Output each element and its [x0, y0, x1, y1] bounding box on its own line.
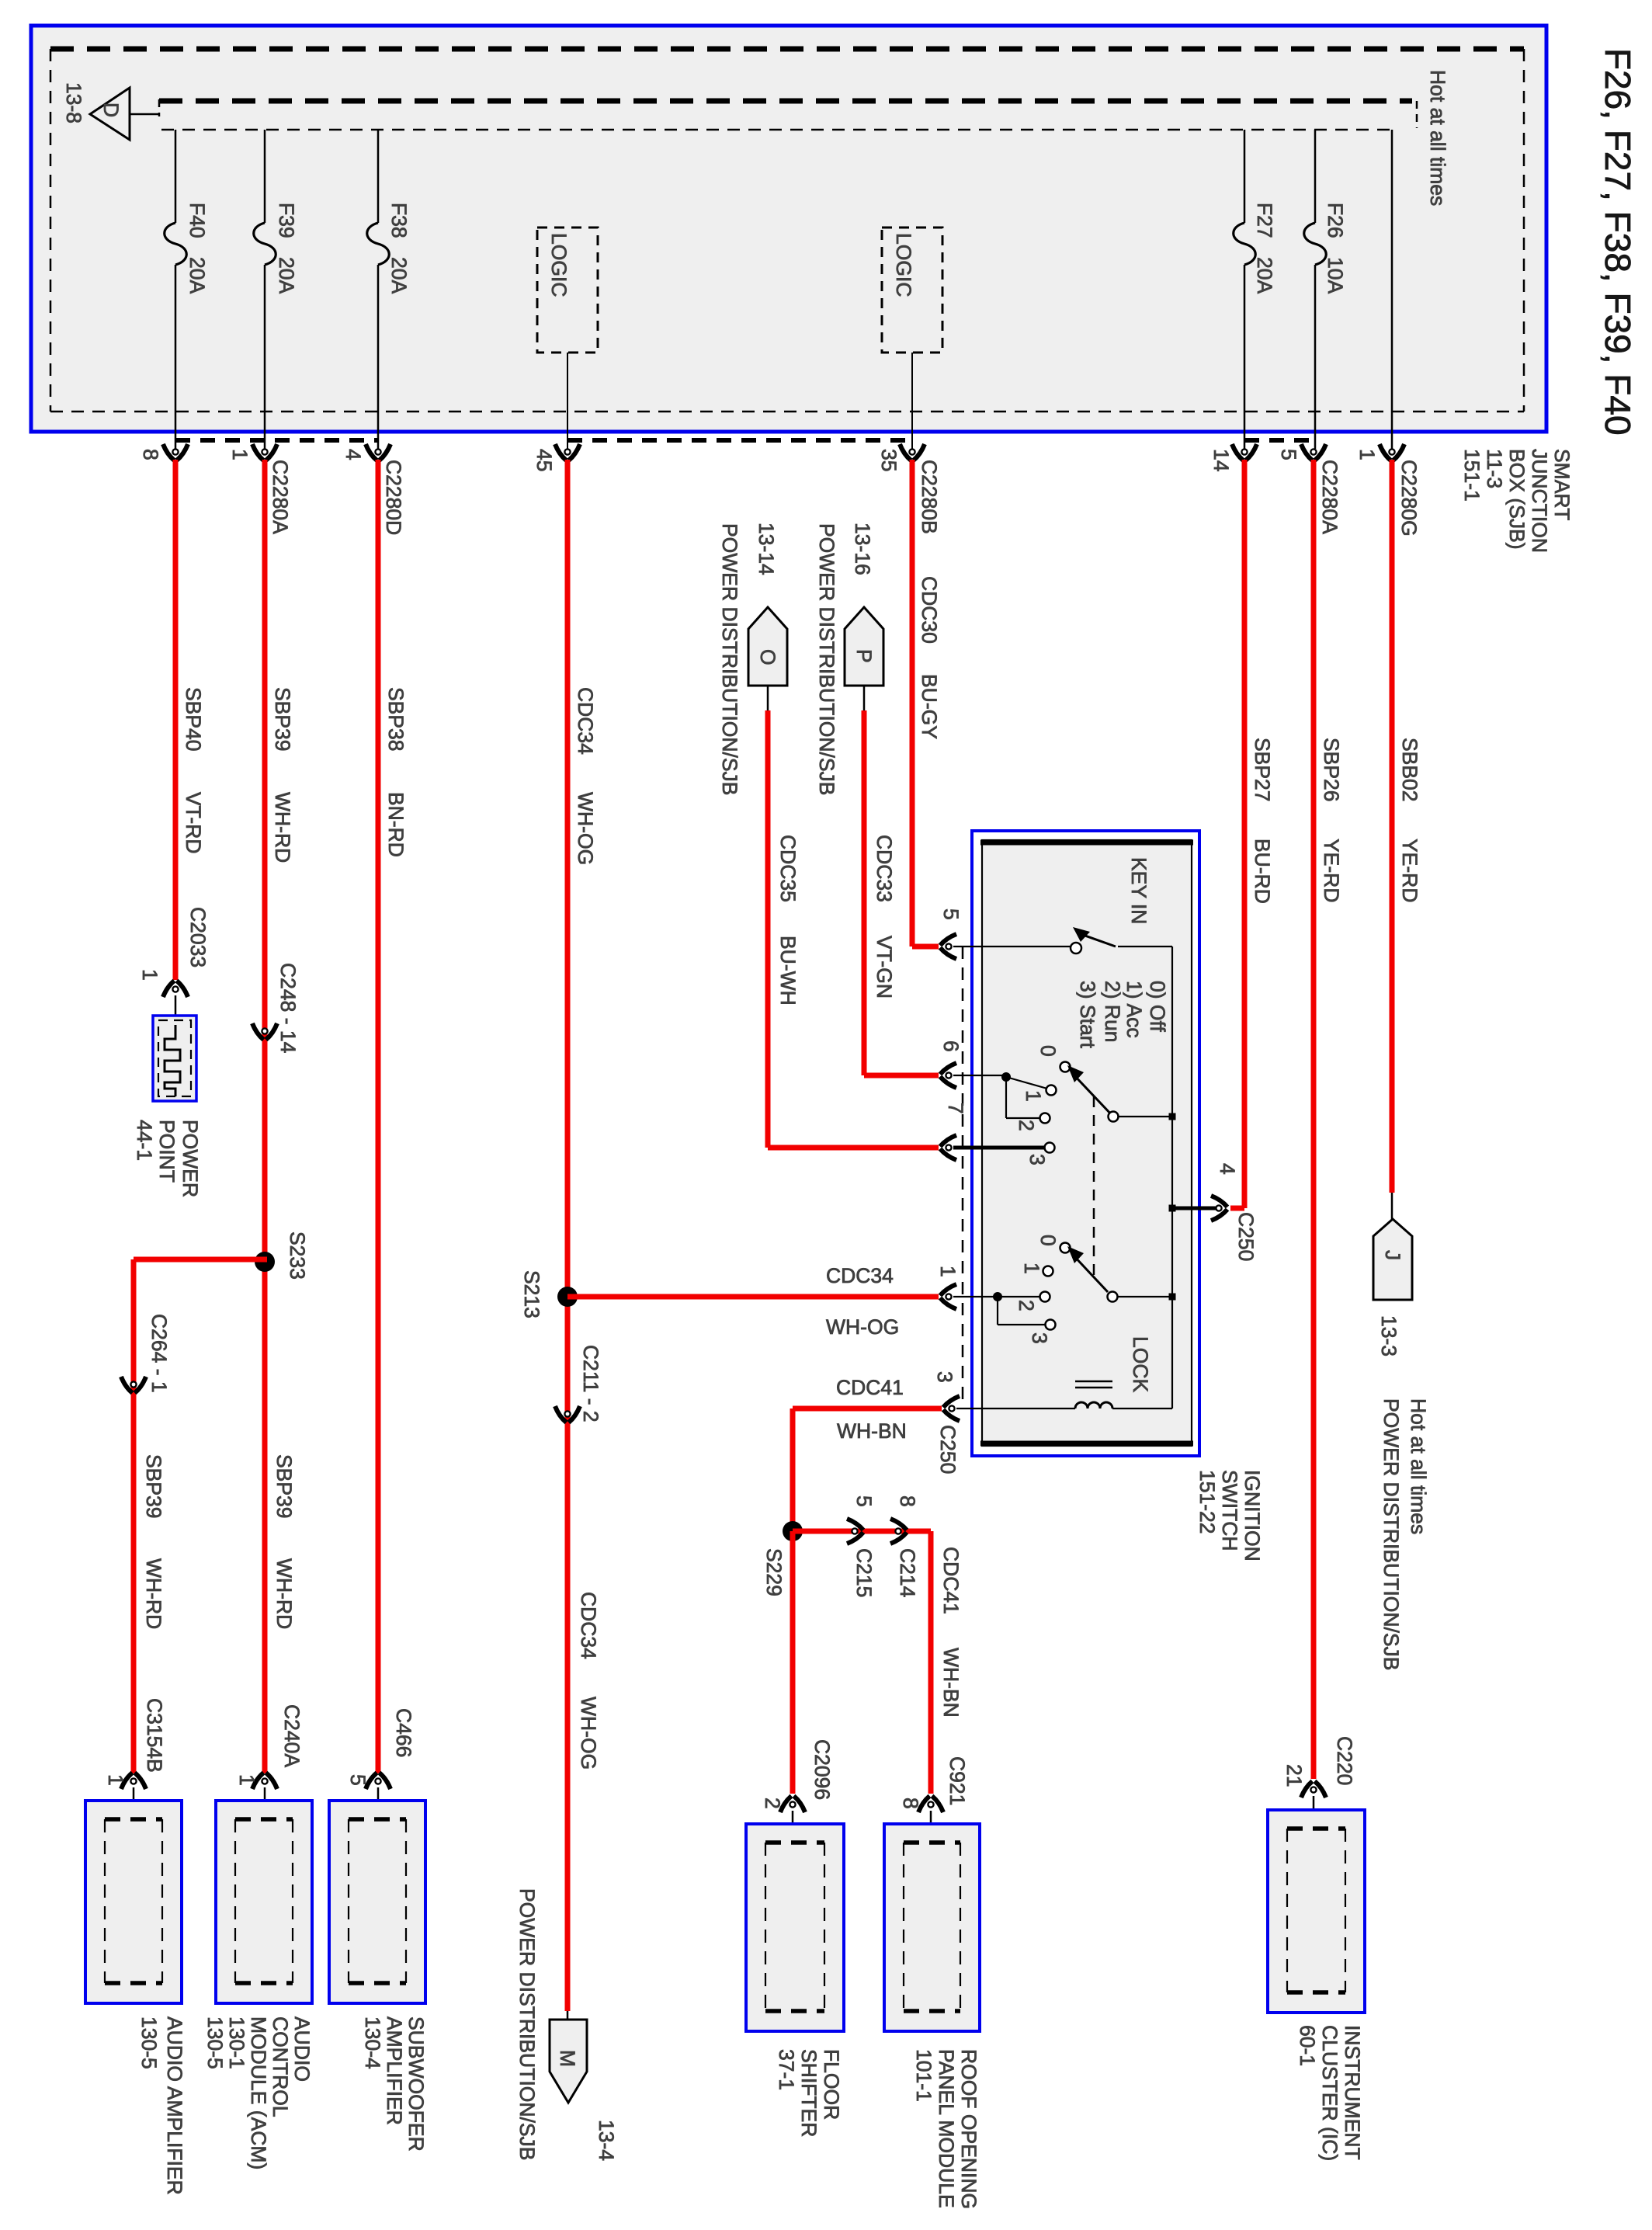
svg-text:C2280A: C2280A: [1318, 460, 1341, 534]
svg-text:1: 1: [228, 449, 252, 460]
svg-text:S233: S233: [286, 1231, 309, 1280]
wire SBB02 YE-RD (red): [1390, 460, 1395, 1193]
svg-text:C2280G: C2280G: [1397, 460, 1421, 537]
svg-text:20A: 20A: [387, 257, 411, 294]
svg-text:13-14: 13-14: [755, 523, 778, 575]
svg-text:SBP39: SBP39: [271, 687, 294, 752]
smart junction box SJB outline: [31, 26, 1546, 432]
connector C264-1 inline arrow: [121, 1377, 146, 1393]
svg-text:C250: C250: [936, 1425, 960, 1474]
SJB outer dashed border bottom: [50, 411, 1524, 413]
svg-text:SBP26: SBP26: [1320, 738, 1343, 802]
SJB outer dashed border left: [50, 49, 52, 412]
connector bus C2280 dashed segment D-E: [567, 438, 912, 443]
svg-text:WH-OG: WH-OG: [577, 1697, 600, 1770]
LOGIC box 1: [537, 228, 598, 353]
ignition pin 6: [940, 1063, 956, 1088]
svg-text:CDC41: CDC41: [939, 1547, 963, 1614]
svg-text:20A: 20A: [1253, 257, 1276, 294]
connector O chevron: [748, 607, 787, 686]
svg-text:AUDIO AMPLIFIER: AUDIO AMPLIFIER: [163, 2016, 186, 2195]
connector bus C2280 dashed segment A-C: [175, 438, 378, 443]
component audio control module ACM: [252, 1773, 277, 1789]
SJB outer dashed border top (thick dashed bus): [50, 47, 1524, 52]
svg-text:151-22: 151-22: [1196, 1470, 1219, 1534]
svg-text:SBP40: SBP40: [182, 687, 205, 752]
SJB output pin 5 at x=1692 arrow: [1301, 444, 1326, 460]
svg-text:C215: C215: [852, 1548, 876, 1597]
svg-text:CLUSTER (IC): CLUSTER (IC): [1318, 2025, 1341, 2161]
svg-text:POWER DISTRIBUTION/SJB: POWER DISTRIBUTION/SJB: [1380, 1398, 1403, 1670]
svg-text:WH-OG: WH-OG: [574, 792, 597, 865]
svg-text:20A: 20A: [186, 257, 209, 294]
svg-text:SBP38: SBP38: [384, 687, 408, 752]
wire SBP40 VT-RD (red): [173, 460, 179, 980]
wire SBP26 YE-RD (red): [1311, 460, 1317, 1779]
svg-text:CDC33: CDC33: [873, 835, 896, 902]
wire CDC35 BU-WH (red): [767, 686, 769, 710]
svg-text:5: 5: [1277, 449, 1300, 460]
svg-text:20A: 20A: [275, 257, 298, 294]
svg-text:WH-BN: WH-BN: [939, 1648, 963, 1718]
svg-text:INSTRUMENT: INSTRUMENT: [1341, 2025, 1364, 2160]
svg-text:1: 1: [235, 1774, 259, 1786]
wire from triangle D to bus: [130, 113, 159, 116]
svg-text:5: 5: [939, 908, 963, 920]
fuse F40: [175, 130, 177, 223]
svg-text:ROOF OPENING: ROOF OPENING: [957, 2049, 980, 2209]
deck 1 blade with arrowhead: [1067, 1065, 1084, 1082]
svg-text:44-1: 44-1: [133, 1120, 156, 1161]
svg-text:LOCK: LOCK: [1129, 1336, 1152, 1392]
svg-text:BU-WH: BU-WH: [776, 936, 800, 1006]
svg-text:M: M: [556, 2050, 579, 2067]
svg-text:CDC30: CDC30: [918, 576, 941, 644]
svg-text:5: 5: [852, 1495, 876, 1507]
svg-text:C240A: C240A: [280, 1704, 304, 1767]
connector M chevron: [567, 2011, 569, 2020]
wire CDC41 WH-BN from pin 3 (red): [793, 1406, 942, 1412]
svg-text:130-4: 130-4: [361, 2016, 384, 2069]
SJB output pin 1 at x=341 arrow: [252, 444, 277, 460]
svg-text:C3154B: C3154B: [143, 1698, 166, 1773]
svg-text:C2280A: C2280A: [269, 460, 292, 534]
svg-text:POWER DISTRIBUTION/SJB: POWER DISTRIBUTION/SJB: [718, 523, 741, 795]
svg-text:3: 3: [1028, 1332, 1051, 1344]
svg-text:SBP39: SBP39: [142, 1454, 165, 1519]
svg-text:POWER DISTRIBUTION/SJB: POWER DISTRIBUTION/SJB: [515, 1888, 539, 2160]
component subwoofer amplifier: [366, 1773, 390, 1789]
svg-text:10A: 10A: [1324, 257, 1347, 294]
svg-text:CDC41: CDC41: [836, 1376, 904, 1399]
svg-text:CDC34: CDC34: [577, 1592, 600, 1659]
wire to floor shifter (red): [790, 1531, 796, 1794]
svg-text:130-5: 130-5: [203, 2016, 227, 2069]
wire CDC33 VT-GN (red): [863, 686, 866, 710]
svg-text:BN-RD: BN-RD: [384, 792, 408, 857]
connector C215 inline arrow: [847, 1519, 863, 1544]
svg-text:YE-RD: YE-RD: [1398, 839, 1421, 902]
svg-text:C2280B: C2280B: [918, 460, 941, 534]
svg-text:13-8: 13-8: [62, 82, 85, 123]
connector bus C2280 dashed segment F-G: [1244, 438, 1314, 443]
svg-text:P: P: [852, 649, 876, 663]
svg-text:130-1: 130-1: [225, 2016, 248, 2069]
svg-text:S213: S213: [520, 1270, 543, 1318]
svg-text:4: 4: [342, 449, 365, 460]
svg-text:SBP27: SBP27: [1251, 738, 1274, 802]
svg-text:0) Off: 0) Off: [1146, 981, 1169, 1032]
svg-text:C2096: C2096: [810, 1739, 834, 1800]
svg-text:JUNCTION: JUNCTION: [1528, 449, 1551, 553]
svg-text:VT-GN: VT-GN: [873, 936, 896, 999]
svg-text:LOGIC: LOGIC: [547, 233, 571, 297]
svg-text:1: 1: [1020, 1263, 1043, 1274]
wire CDC41 WH-BN to roof module (red): [793, 1529, 931, 1534]
svg-text:SMART: SMART: [1550, 449, 1574, 520]
svg-text:BU-GY: BU-GY: [918, 674, 941, 739]
ignition pin 1 (CDC34): [940, 1284, 956, 1309]
svg-text:VT-RD: VT-RD: [182, 792, 205, 854]
ignition pin 7 (thick): [940, 1135, 956, 1160]
SJB output pin 45 at x=731 arrow: [555, 444, 580, 460]
svg-text:BOX (SJB): BOX (SJB): [1505, 449, 1529, 550]
svg-text:YE-RD: YE-RD: [1320, 839, 1343, 902]
svg-text:IGNITION: IGNITION: [1241, 1470, 1264, 1561]
svg-text:1: 1: [936, 1266, 960, 1277]
key-in switch pin 5: [940, 934, 956, 959]
svg-text:C264 - 1: C264 - 1: [147, 1314, 171, 1393]
svg-text:F39: F39: [275, 203, 298, 238]
SJB output pin 35 at x=1175 arrow: [900, 444, 925, 460]
svg-text:BU-RD: BU-RD: [1251, 839, 1274, 904]
svg-text:SHIFTER: SHIFTER: [797, 2049, 821, 2137]
svg-text:C250: C250: [1234, 1212, 1258, 1261]
svg-text:35: 35: [877, 449, 901, 471]
splice S233: [255, 1252, 275, 1272]
wire CDC34 WH-OG (red): [565, 460, 571, 2011]
svg-text:SUBWOOFER: SUBWOOFER: [404, 2016, 428, 2152]
internal hot bus (thin dashed): [161, 129, 1392, 131]
svg-text:J: J: [1381, 1250, 1404, 1260]
svg-text:POWER: POWER: [179, 1120, 202, 1197]
svg-text:CONTROL: CONTROL: [269, 2016, 292, 2117]
wire SBB02 inside SJB: [1391, 130, 1393, 449]
svg-text:POINT: POINT: [155, 1120, 179, 1183]
connector C211-2 inline arrow: [555, 1406, 580, 1422]
svg-text:21: 21: [1282, 1764, 1306, 1787]
svg-text:5: 5: [346, 1774, 370, 1786]
svg-text:WH-RD: WH-RD: [272, 1558, 296, 1629]
svg-text:Hot at all times: Hot at all times: [1426, 70, 1449, 206]
svg-text:SBP39: SBP39: [272, 1454, 296, 1519]
svg-text:4: 4: [1216, 1163, 1239, 1175]
svg-text:AMPLIFIER: AMPLIFIER: [383, 2016, 406, 2125]
svg-text:S229: S229: [762, 1548, 786, 1596]
svg-text:3) Start: 3) Start: [1076, 981, 1099, 1049]
svg-text:MODULE (ACM): MODULE (ACM): [247, 2016, 270, 2169]
svg-text:130-5: 130-5: [137, 2016, 161, 2069]
ignition internal bus: [1171, 947, 1173, 1409]
svg-text:0: 0: [1036, 1045, 1060, 1057]
svg-text:WH-OG: WH-OG: [826, 1315, 899, 1339]
ground triangle D: [90, 88, 130, 140]
LOGIC box 2: [882, 228, 942, 353]
connector C248-14 inline arrow: [252, 1023, 277, 1040]
svg-text:45: 45: [533, 449, 556, 471]
mechanical linkage dashed: [1093, 1096, 1095, 1277]
wire SBP39 WH-RD (red): [262, 460, 268, 1773]
svg-text:C211 - 2: C211 - 2: [579, 1345, 602, 1422]
svg-text:C466: C466: [392, 1708, 415, 1757]
svg-text:PANEL MODULE: PANEL MODULE: [935, 2049, 958, 2208]
svg-text:SBB02: SBB02: [1398, 738, 1421, 802]
svg-text:AUDIO: AUDIO: [290, 2016, 314, 2082]
svg-text:1: 1: [104, 1774, 127, 1786]
svg-text:6: 6: [939, 1040, 963, 1052]
SJB output pin 4 at x=487 arrow: [366, 444, 390, 460]
fuse F27: [1244, 130, 1246, 223]
component audio amplifier: [121, 1773, 146, 1789]
svg-text:O: O: [756, 649, 779, 665]
deck 2 blade with arrowhead: [1067, 1246, 1084, 1263]
svg-text:F40: F40: [186, 203, 209, 238]
svg-text:13-3: 13-3: [1377, 1315, 1400, 1356]
svg-text:7: 7: [944, 1103, 967, 1114]
internal thick dashed bus: [159, 99, 1412, 104]
svg-text:151-1: 151-1: [1460, 449, 1484, 502]
svg-text:2) Run: 2) Run: [1101, 981, 1124, 1043]
ignition switch outline blue: [972, 831, 1199, 1456]
fuse F26: [1314, 130, 1317, 223]
svg-text:C214: C214: [896, 1548, 919, 1597]
svg-text:101-1: 101-1: [912, 2049, 935, 2102]
component instrument cluster: [1301, 1781, 1326, 1798]
svg-text:SWITCH: SWITCH: [1218, 1470, 1241, 1551]
svg-text:2: 2: [761, 1798, 784, 1809]
svg-text:Hot at all times: Hot at all times: [1407, 1398, 1430, 1534]
component floor shifter: [780, 1796, 805, 1812]
svg-text:C2033: C2033: [186, 907, 210, 967]
svg-text:F26, F27, F38, F39, F40: F26, F27, F38, F39, F40: [1598, 48, 1638, 436]
component roof opening panel module: [918, 1796, 943, 1812]
connector J chevron: [1391, 1193, 1393, 1219]
svg-text:60-1: 60-1: [1296, 2025, 1319, 2066]
connector C214 inline arrow: [890, 1519, 907, 1544]
wire SBP38 BN-RD (red): [376, 460, 381, 1773]
svg-text:POWER DISTRIBUTION/SJB: POWER DISTRIBUTION/SJB: [815, 523, 838, 795]
svg-text:CDC35: CDC35: [776, 835, 800, 902]
svg-text:F26: F26: [1324, 203, 1347, 238]
SJB output pin 8 at x=226 arrow: [163, 444, 188, 460]
fuse F38: [377, 130, 380, 223]
svg-text:1: 1: [138, 969, 161, 981]
power point box: [153, 1016, 196, 1101]
svg-text:C921: C921: [946, 1756, 969, 1805]
SJB output pin 14 at x=1603 arrow: [1232, 444, 1257, 460]
ignition pin 4 C250 (thick): [1169, 1205, 1176, 1212]
wire into power point: [175, 995, 177, 1050]
svg-text:WH-RD: WH-RD: [142, 1558, 165, 1629]
splice S213: [557, 1287, 578, 1307]
svg-text:C2280D: C2280D: [382, 460, 405, 535]
svg-text:CDC34: CDC34: [826, 1264, 894, 1287]
connector C2033 arrow: [163, 981, 188, 997]
svg-text:WH-RD: WH-RD: [271, 792, 294, 863]
fuse F39: [264, 130, 266, 223]
wire SBP27 BU-RD (red): [1242, 460, 1248, 1208]
svg-text:C248 - 14: C248 - 14: [276, 963, 300, 1053]
wire CDC34 WH-OG to pin 1 (red): [567, 1294, 939, 1300]
connector P chevron: [845, 607, 883, 686]
svg-text:37-1: 37-1: [775, 2049, 798, 2090]
svg-text:D: D: [99, 102, 123, 117]
ignition switch inner box: [982, 840, 1192, 1446]
svg-text:FLOOR: FLOOR: [820, 2049, 843, 2120]
svg-text:LOGIC: LOGIC: [892, 233, 915, 297]
svg-text:1: 1: [1022, 1090, 1045, 1102]
svg-text:F27: F27: [1253, 203, 1276, 238]
connector C250 dashed line: [962, 947, 964, 1402]
key-in switch blade: [1073, 927, 1090, 942]
svg-text:0: 0: [1036, 1235, 1060, 1246]
wire CDC30 BU-GY (red): [910, 460, 915, 947]
splice S229: [783, 1521, 803, 1541]
svg-text:8: 8: [896, 1495, 919, 1507]
svg-text:WH-BN: WH-BN: [837, 1419, 907, 1443]
svg-text:1: 1: [1355, 449, 1379, 460]
svg-text:3: 3: [1026, 1154, 1049, 1165]
svg-text:1) Acc: 1) Acc: [1123, 981, 1146, 1038]
svg-text:2: 2: [1015, 1300, 1038, 1311]
wire from LOGIC box 1: [567, 353, 568, 449]
svg-text:KEY IN: KEY IN: [1127, 857, 1150, 924]
svg-text:F38: F38: [387, 203, 411, 238]
svg-text:13-16: 13-16: [851, 523, 874, 575]
branch wire from S233 (red): [134, 1257, 267, 1263]
SJB output pin 1 at x=1793 arrow: [1380, 444, 1404, 460]
SJB outer dashed border right: [1523, 49, 1525, 412]
ignition pin 3 (CDC41): [943, 1396, 960, 1421]
svg-text:3: 3: [933, 1371, 956, 1383]
svg-text:13-4: 13-4: [595, 2120, 618, 2161]
wire from LOGIC box 2: [911, 353, 913, 449]
svg-text:8: 8: [899, 1798, 922, 1809]
svg-text:C220: C220: [1333, 1736, 1356, 1785]
svg-text:CDC34: CDC34: [574, 687, 597, 755]
svg-text:8: 8: [139, 449, 162, 460]
svg-text:14: 14: [1209, 449, 1233, 471]
svg-text:11-3: 11-3: [1483, 449, 1506, 488]
svg-text:2: 2: [1015, 1120, 1038, 1131]
